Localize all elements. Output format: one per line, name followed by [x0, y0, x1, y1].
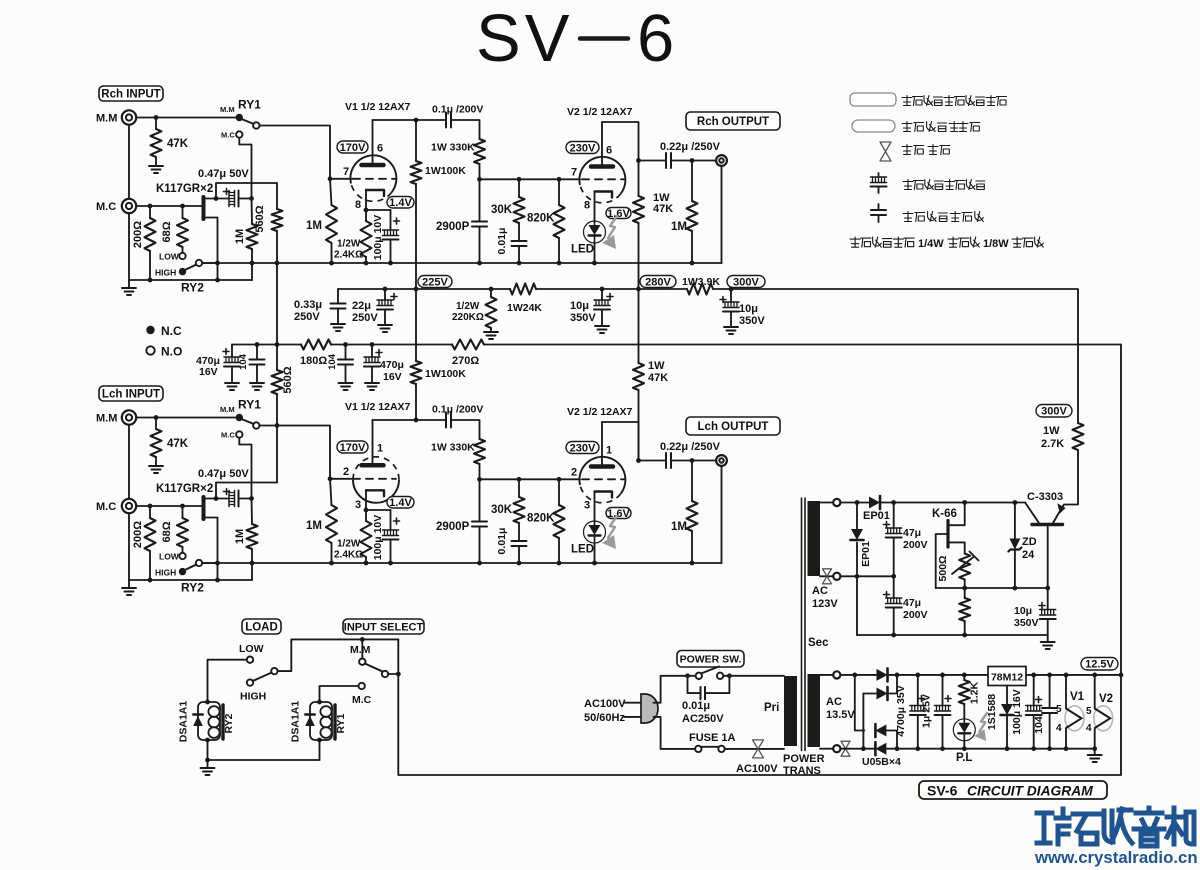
- svg-text:M.C: M.C: [221, 431, 235, 440]
- power switch lever: [701, 667, 719, 674]
- junction relay ground: [205, 758, 210, 763]
- legend film cap symbol: [871, 210, 886, 215]
- jack Rch output: [716, 155, 727, 166]
- svg-text:68Ω: 68Ω: [161, 521, 173, 542]
- wire RIAA node to V2 grid (Lch): [480, 478, 581, 480]
- svg-text:200V: 200V: [903, 539, 928, 551]
- wire bridge D2 lower: [862, 694, 864, 749]
- wire 47u bottom cap: [893, 576, 895, 598]
- svg-text:300V: 300V: [733, 276, 759, 288]
- resistor 1W330K (Lch): [474, 439, 485, 464]
- junction 100u bottom (Lch): [388, 561, 393, 566]
- svg-text:1.2K: 1.2K: [969, 681, 981, 704]
- LED cathode bias (Rch): [584, 221, 606, 243]
- wire grid to 1M (Lch): [330, 479, 332, 505]
- resistor 47K input load (Lch): [151, 429, 162, 457]
- junction source/wiper (Lch): [215, 561, 220, 566]
- V1 grid dashes (Lch): [353, 478, 396, 480]
- wire sleeve to ground line (Lch): [128, 513, 130, 580]
- svg-text:7: 7: [343, 166, 349, 178]
- jack M.C input (Rch): [122, 199, 136, 213]
- LV ground rail: [886, 748, 1094, 750]
- V1 grid wire (Lch): [330, 478, 353, 480]
- junction 820K top (Rch): [557, 177, 562, 182]
- wire bridge D2: [863, 675, 897, 694]
- resistor 47K input load (Rch): [151, 129, 162, 157]
- svg-text:V2: V2: [1099, 693, 1113, 705]
- contact SELECT M.M: [359, 659, 365, 665]
- wire M.M jack to RY1 (Lch): [136, 417, 236, 419]
- wire heater pin4 V2: [1094, 728, 1096, 749]
- wire fuse to primary: [725, 748, 784, 750]
- wire RY2 wiper (Lch): [202, 562, 217, 564]
- resistor 1W3.9K dropper: [687, 284, 713, 295]
- svg-text:Lch INPUT: Lch INPUT: [102, 389, 160, 401]
- svg-text:1W100K: 1W100K: [425, 368, 466, 380]
- junction bridge D2 top: [895, 673, 900, 678]
- label box Rch OUTPUT: [686, 112, 780, 130]
- V1 plate lead (Rch): [372, 120, 374, 165]
- svg-text:10μ: 10μ: [739, 303, 758, 315]
- flash mark at P.L: [974, 713, 987, 741]
- wire 100u16V: [1033, 675, 1035, 706]
- resistor 68ohm (Lch): [177, 518, 188, 547]
- svg-text:Lch OUTPUT: Lch OUTPUT: [698, 421, 769, 433]
- junction LED bottom (Lch): [592, 561, 597, 566]
- svg-text:1M: 1M: [306, 220, 322, 232]
- contact LOAD HIGH: [247, 679, 253, 685]
- jack M.M input (Rch): [122, 110, 136, 124]
- svg-text:1μ 25V: 1μ 25V: [921, 694, 933, 728]
- svg-text:22μ: 22μ: [352, 300, 371, 312]
- wire 104(R) from rail: [345, 345, 347, 360]
- wire sleeve to ground line (Rch): [128, 213, 130, 280]
- junction 30K top (Lch): [517, 477, 522, 482]
- wire 225V rail to 1W100K (Lch): [415, 289, 417, 361]
- svg-text:SV-6: SV-6: [927, 783, 958, 799]
- svg-text:AC: AC: [812, 585, 828, 597]
- wire RIAA node to V2 grid (Rch): [480, 178, 581, 180]
- wire M.M jack to RY1 (Rch): [136, 117, 236, 119]
- resistor 820K (Rch): [554, 205, 565, 238]
- junction heater pin4 V1: [1064, 746, 1069, 751]
- relay flyback diode RY2: [193, 715, 203, 727]
- wire 220K to ground: [490, 328, 492, 332]
- V1 plate (Rch): [362, 163, 384, 168]
- wire 560ohm to rails (Rch): [276, 231, 278, 345]
- junction EP01 shunt top: [855, 500, 860, 505]
- junction RIAA node (Lch): [477, 477, 482, 482]
- watermark 矿石收音机: [1037, 808, 1194, 846]
- contact RY1 M.C (N.O) (Rch): [236, 131, 242, 137]
- svg-text:100μ 10V: 100μ 10V: [372, 215, 384, 261]
- diode EP01 shunt: [851, 529, 864, 540]
- legend electrolytic lead: [878, 173, 880, 177]
- wire 10u(280V) to ground: [601, 310, 603, 327]
- wire to 200ohm (Rch): [149, 206, 151, 218]
- contact RY1 wiper (Lch): [253, 422, 259, 428]
- V2 plate lead (Lch): [601, 422, 603, 467]
- wire 330K to node (Rch): [479, 164, 481, 179]
- transistor C-3303 collector: [1025, 503, 1039, 523]
- wire to 30K (Lch): [518, 479, 520, 497]
- legend voltage oval symbol: [852, 120, 895, 132]
- junction LED bottom (Rch): [592, 261, 597, 266]
- transistor K117GR JFET (Lch): [202, 497, 206, 519]
- svg-text:K117GR×2: K117GR×2: [156, 183, 213, 195]
- capacitor 470u 16V (left): [223, 349, 240, 367]
- wire M.M to M.C sleeve (Rch): [128, 125, 130, 199]
- diode EP01 series: [869, 496, 880, 509]
- svg-text:1/2W: 1/2W: [337, 239, 361, 250]
- wire 47K to ground (Rch): [155, 157, 157, 166]
- junction relay bottom RY2: [205, 738, 210, 743]
- svg-text:POWER SW.: POWER SW.: [680, 654, 742, 666]
- junction 2.4K bottom (Lch): [364, 561, 369, 566]
- AC voltage marker AC123V: [823, 569, 832, 584]
- diode bridge D3: [875, 724, 886, 737]
- svg-text:30K: 30K: [491, 204, 513, 216]
- wire 470u(R) from rail: [371, 345, 373, 358]
- wire 470u(L) from rail: [231, 345, 233, 358]
- svg-text:RY2: RY2: [223, 713, 235, 733]
- svg-text:1.4V: 1.4V: [389, 497, 412, 509]
- junction output node (Rch): [636, 158, 641, 163]
- V1 cathode (Lch): [366, 490, 384, 496]
- wire 560ohm down to wiper wire (Lch): [276, 394, 278, 483]
- junction 0.01u bottom (Rch): [517, 261, 522, 266]
- svg-text:6: 6: [637, 1, 674, 76]
- relay flyback diode RY1: [305, 715, 315, 727]
- svg-text:1/4W: 1/4W: [918, 238, 944, 250]
- supply filter rail right: [484, 344, 1121, 346]
- junction 1M grid bottom (Lch): [329, 561, 334, 566]
- wire plug to switch: [654, 676, 696, 703]
- junction 4700u top: [915, 673, 920, 678]
- transistor K-66 JFET bar: [946, 521, 949, 548]
- wire 22u from rail: [384, 289, 386, 300]
- wire plug to fuse: [654, 717, 696, 749]
- junction P.L bottom: [962, 746, 967, 751]
- capacitor 470u 16V (right): [364, 350, 382, 367]
- voltage oval 170V (Lch): [337, 441, 368, 453]
- svg-text:C-3303: C-3303: [1027, 491, 1063, 503]
- wire bridge D3 right: [886, 731, 897, 749]
- wire 47K to ground (Lch): [155, 457, 157, 466]
- AC voltage marker 13.5V: [841, 741, 850, 756]
- svg-text:LOW: LOW: [239, 643, 264, 655]
- svg-text:1.4V: 1.4V: [389, 197, 412, 209]
- junction 470u (right): [370, 342, 375, 347]
- potentiometer 500ohm: [959, 554, 970, 580]
- svg-text:1M: 1M: [234, 229, 246, 244]
- svg-text:Pri: Pri: [764, 702, 779, 714]
- capacitor 100u 16V: [1026, 697, 1042, 716]
- svg-text:M.C: M.C: [96, 501, 116, 513]
- wire to 2.4K (Rch): [365, 210, 367, 221]
- svg-text:170V: 170V: [340, 442, 366, 454]
- junction 220K top: [489, 287, 494, 292]
- svg-text:1W100K: 1W100K: [425, 165, 466, 177]
- svg-text:0.1μ /200V: 0.1μ /200V: [432, 404, 483, 416]
- junction cap right (Lch): [249, 496, 254, 501]
- wire K-66 drain: [950, 503, 965, 526]
- wire K-66 source: [950, 542, 965, 553]
- svg-text:2.4KΩ: 2.4KΩ: [334, 250, 363, 261]
- svg-text:V1 1/2 12AX7: V1 1/2 12AX7: [345, 401, 411, 413]
- LED cathode bias (Lch): [584, 521, 606, 543]
- LOAD wiper arm: [253, 673, 272, 682]
- legend electrolytic symbol: [871, 177, 887, 187]
- wire 30K to 0.01u (Rch): [518, 223, 520, 241]
- wire plate node (Lch): [373, 419, 417, 421]
- contact RY1 wiper (Rch): [253, 122, 259, 128]
- wire LOAD LOW to RY2 coil: [208, 660, 247, 701]
- jack M.M input (Lch): [122, 410, 136, 424]
- wire 104(L) to ground: [256, 365, 258, 384]
- wire SELECT wiper to riser: [388, 673, 398, 675]
- relay coil loops RY1: [320, 706, 331, 738]
- svg-text:1/8W: 1/8W: [983, 238, 1009, 250]
- junction 2.4K bottom (Rch): [364, 261, 369, 266]
- legend N.O circle: [146, 346, 154, 354]
- svg-text:7: 7: [571, 167, 577, 179]
- relay coil box RY2: [198, 702, 220, 740]
- junction M.M/47K (Lch): [154, 415, 159, 420]
- wire 1u25V: [942, 675, 944, 706]
- voltage oval 280V: [640, 276, 676, 288]
- capacitor 47u 200V lower: [884, 592, 902, 608]
- svg-text:1M: 1M: [671, 521, 687, 533]
- junction 68ohm top (Rch): [180, 204, 185, 209]
- relay armature bar RY1: [333, 705, 336, 739]
- wire 0.01u to rail (Rch): [518, 246, 520, 263]
- ground below 104 (right): [339, 383, 353, 390]
- RY1 wiper arm (Rch): [242, 119, 254, 124]
- V1 cathode (Rch): [366, 190, 384, 196]
- wire base cap to ground line: [1047, 619, 1049, 635]
- resistor 68ohm (Rch): [177, 218, 188, 247]
- junction 1u25V bottom: [940, 746, 945, 751]
- junction bridge D3 top: [852, 673, 857, 678]
- wire 68ohm to LOW contact (Rch): [182, 247, 184, 253]
- wire 0.47u to 1M (Lch): [239, 498, 252, 500]
- svg-text:104: 104: [1033, 716, 1045, 734]
- V2 grid dashes (Lch): [582, 478, 625, 480]
- V1 grid dashes (Rch): [353, 178, 396, 180]
- junction 200ohm bottom (Lch): [148, 578, 153, 583]
- wire EP01 shunt: [856, 503, 858, 636]
- junction 30K top (Rch): [517, 177, 522, 182]
- capacitor 0.22u 250V output (Lch): [666, 453, 671, 468]
- wire to 1M output (Rch): [691, 161, 693, 202]
- svg-text:M.M: M.M: [96, 413, 117, 425]
- capacitor 0.1u 200V coupling (Rch): [446, 113, 451, 128]
- wire C-3303 base down: [1047, 525, 1049, 589]
- wire zener: [1014, 503, 1016, 589]
- wire 1M to rail (Rch): [251, 249, 253, 263]
- svg-text:16V: 16V: [383, 371, 402, 383]
- potentiometer arrow: [952, 552, 979, 575]
- relay coil box RY1: [310, 702, 332, 740]
- heater connector V1: [1065, 706, 1084, 731]
- svg-text:2: 2: [343, 466, 349, 478]
- wire to 0.22u (Lch): [639, 460, 667, 462]
- legend text 電圧: [958, 122, 980, 132]
- V2 cathode lead (Lch): [594, 492, 596, 522]
- svg-text:DSA1A1: DSA1A1: [178, 701, 190, 743]
- junction base/node line: [1045, 586, 1050, 591]
- junction cathode (Rch): [364, 208, 369, 213]
- contact RY2 LOW (Rch): [179, 253, 185, 259]
- power switch contact right: [717, 673, 723, 679]
- svg-text:1: 1: [377, 443, 383, 455]
- svg-text:1.6V: 1.6V: [607, 508, 630, 520]
- wire to 0.47u (Lch): [216, 498, 229, 500]
- wire bridge D3 left: [855, 675, 865, 731]
- wire 47K to 280V rail (Rch): [638, 223, 640, 289]
- junction 1M grid bottom (Rch): [329, 261, 334, 266]
- resistor 2.4K cathode (Lch): [361, 521, 372, 557]
- label box Lch INPUT: [99, 386, 163, 401]
- junction zener bottom: [1013, 586, 1018, 591]
- wire divider resistor: [964, 588, 966, 635]
- wire 104 out lower: [1049, 713, 1051, 749]
- junction 100u16V top: [1031, 673, 1036, 678]
- svg-text:30K: 30K: [491, 504, 513, 516]
- legend text 対アース間: [902, 122, 959, 132]
- junction 104 out top: [1047, 673, 1052, 678]
- junction cap left (Lch): [214, 496, 219, 501]
- junction 560ohm/stage rail (Rch): [275, 261, 280, 266]
- supply filter rail middle: [331, 344, 452, 346]
- 12.5V rail after regulator: [1026, 674, 1121, 676]
- wire 47u bottom cap lower lead: [893, 608, 895, 636]
- wire 2.4K to rail (Lch): [365, 557, 367, 563]
- wire 1W100K to 225V rail (Rch): [415, 184, 417, 289]
- svg-text:6: 6: [606, 145, 612, 157]
- power switch contact left: [696, 673, 702, 679]
- HV secondary terminal top: [833, 499, 840, 506]
- svg-text:250V: 250V: [352, 312, 378, 324]
- wire switch to primary: [723, 675, 784, 677]
- svg-text:1W: 1W: [648, 360, 665, 372]
- junction 2900P bottom (Rch): [477, 261, 482, 266]
- wire node to 2900P (Rch): [479, 179, 481, 221]
- wire 1M to rail (Lch): [251, 549, 253, 563]
- wire 100u16V lower: [1033, 715, 1035, 749]
- legend text タイプ: [1012, 237, 1043, 247]
- 12.5V riser right edge: [398, 345, 1121, 776]
- svg-text:220KΩ: 220KΩ: [452, 312, 484, 323]
- capacitor 0.01u AC250V snubber: [701, 687, 706, 699]
- wire relay common: [208, 759, 320, 761]
- relay armature bar RY2: [221, 705, 224, 739]
- svg-text:V1: V1: [1070, 691, 1085, 703]
- legend film cap lead: [878, 204, 880, 210]
- HV secondary terminal bottom: [833, 573, 840, 580]
- voltage oval 230V (Rch): [566, 142, 599, 154]
- transformer HV secondary winding: [808, 501, 821, 576]
- svg-text:1/2W: 1/2W: [456, 301, 480, 312]
- legend text セラ、フィルム: [903, 212, 983, 222]
- wire 68ohm to LOW contact (Lch): [182, 547, 184, 553]
- transformer primary winding: [784, 676, 797, 746]
- label box LOAD: [242, 619, 281, 634]
- wire select riser down: [397, 639, 399, 774]
- wire relay RY1 down: [319, 740, 321, 760]
- junction snubber left: [685, 673, 690, 678]
- legend text 電解コンデンサー: [903, 180, 985, 190]
- RY2 wiper arm (Rch): [185, 265, 196, 270]
- tube V2 triode (Lch): [579, 457, 625, 503]
- svg-text:5: 5: [1056, 704, 1062, 715]
- legend film cap lead: [878, 215, 880, 222]
- resistor 1W24K dropper: [510, 284, 536, 295]
- svg-text:2.4KΩ: 2.4KΩ: [334, 550, 363, 561]
- junction 47K loads on 280V rail: [636, 287, 641, 292]
- svg-text:0.33μ: 0.33μ: [294, 299, 322, 311]
- V2 cathode (Lch): [595, 492, 613, 498]
- resistor 1M input (Rch): [247, 224, 258, 249]
- junction output node (Lch): [636, 458, 641, 463]
- wire LOAD wiper to select line: [278, 639, 399, 671]
- junction 1M output top (Lch): [690, 458, 695, 463]
- fuse link: [701, 746, 719, 748]
- svg-text:V1 1/2 12AX7: V1 1/2 12AX7: [345, 101, 411, 113]
- svg-text:2.7K: 2.7K: [1041, 438, 1064, 450]
- junction 100K loads on 225V rail: [414, 287, 419, 292]
- svg-text:270Ω: 270Ω: [452, 355, 479, 367]
- wire 47K to plate node (Lch): [638, 390, 640, 461]
- voltage oval 300V: [727, 276, 765, 288]
- capacitor 104 output: [1042, 708, 1057, 713]
- junction cap left (Rch): [214, 196, 219, 201]
- node line HV regulator: [936, 587, 1048, 589]
- junction 1M bottom (Rch): [250, 261, 255, 266]
- ground below 470u (right): [365, 383, 379, 390]
- svg-text:2900P: 2900P: [436, 221, 470, 233]
- wire to 47K (Rch): [155, 118, 157, 130]
- junction 104 (left): [255, 342, 260, 347]
- wire 0.47u to 1M (Rch): [239, 198, 252, 200]
- wire 820K to rail (Rch): [558, 238, 560, 263]
- junction zener top: [1013, 500, 1018, 505]
- junction bridge D3 bottom: [895, 746, 900, 751]
- V2 cathode lead (Rch): [594, 192, 596, 222]
- capacitor 1u 25V: [935, 696, 952, 716]
- wire 200ohm to bottom (Rch): [149, 251, 151, 280]
- svg-text:350V: 350V: [739, 315, 765, 327]
- LED P.L pilot: [953, 719, 975, 741]
- svg-text:47K: 47K: [167, 438, 189, 450]
- svg-text:0.01μ: 0.01μ: [496, 528, 508, 555]
- wire 104(L) from rail: [256, 345, 258, 360]
- capacitor 0.47u 50V (Lch): [224, 489, 239, 507]
- svg-text:820K: 820K: [527, 213, 555, 225]
- svg-text:1M: 1M: [306, 520, 322, 532]
- wire M.M to M.C sleeve (Lch): [128, 425, 130, 499]
- title box SV-6 CIRCUIT DIAGRAM: [919, 781, 1107, 799]
- svg-text:200Ω: 200Ω: [132, 221, 144, 248]
- resistor 1M grid (Rch): [326, 205, 337, 243]
- resistor 270ohm filter: [452, 340, 484, 350]
- V2 cathode (Rch): [595, 192, 613, 198]
- svg-text:2900P: 2900P: [436, 521, 470, 533]
- junction select line/M.M: [360, 637, 365, 642]
- junction 1u25V top: [940, 673, 945, 678]
- wire heater pin5 V1: [1065, 675, 1067, 709]
